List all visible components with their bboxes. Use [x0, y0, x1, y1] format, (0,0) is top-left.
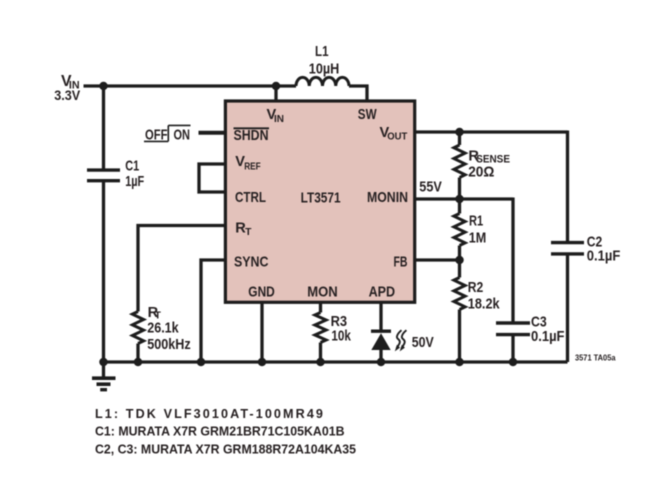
svg-text:R1: R1	[469, 214, 483, 230]
svg-text:SYNC: SYNC	[234, 254, 269, 270]
svg-text:APD: APD	[369, 285, 396, 301]
svg-text:R2: R2	[468, 280, 484, 296]
svg-text:50V: 50V	[412, 335, 434, 351]
svg-text:20Ω: 20Ω	[468, 165, 495, 181]
svg-text:OUT: OUT	[387, 131, 408, 142]
svg-text:GND: GND	[248, 285, 274, 301]
svg-text:26.1k: 26.1k	[147, 320, 179, 336]
svg-text:10k: 10k	[331, 328, 351, 344]
svg-text:R3: R3	[331, 314, 348, 330]
svg-text:L1: TDK VLF3010AT-100MR49: L1: TDK VLF3010AT-100MR49	[95, 407, 325, 421]
svg-text:CTRL: CTRL	[235, 190, 266, 206]
svg-text:REF: REF	[244, 162, 261, 173]
svg-text:0.1µF: 0.1µF	[531, 329, 565, 345]
svg-text:C2, C3: MURATA X7R GRM188R72A1: C2, C3: MURATA X7R GRM188R72A104KA35	[95, 442, 356, 456]
svg-text:MON: MON	[307, 285, 338, 301]
svg-text:C1: MURATA X7R GRM21BR71C105KA: C1: MURATA X7R GRM21BR71C105KA01B	[95, 425, 345, 439]
svg-text:500kHz: 500kHz	[147, 337, 191, 353]
svg-text:ON: ON	[174, 128, 191, 144]
svg-text:10µH: 10µH	[309, 61, 340, 77]
svg-text:0.1µF: 0.1µF	[587, 249, 621, 265]
svg-text:1M: 1M	[469, 231, 487, 247]
svg-text:MONIN: MONIN	[367, 190, 408, 206]
svg-text:1µF: 1µF	[125, 174, 144, 190]
svg-text:SW: SW	[358, 107, 377, 123]
svg-text:T: T	[245, 227, 252, 238]
svg-text:SHDN: SHDN	[234, 128, 269, 144]
svg-text:18.2k: 18.2k	[468, 297, 501, 313]
svg-text:55V: 55V	[419, 180, 442, 196]
svg-text:LT3571: LT3571	[301, 190, 341, 206]
svg-text:IN: IN	[274, 114, 284, 125]
svg-text:C1: C1	[125, 159, 139, 175]
svg-text:SENSE: SENSE	[476, 153, 510, 165]
svg-text:FB: FB	[394, 255, 408, 271]
svg-text:3571 TA05a: 3571 TA05a	[575, 354, 616, 363]
svg-text:C3: C3	[531, 315, 547, 331]
svg-text:OFF: OFF	[145, 128, 168, 144]
svg-text:L1: L1	[315, 44, 329, 60]
svg-text:3.3V: 3.3V	[54, 88, 80, 103]
